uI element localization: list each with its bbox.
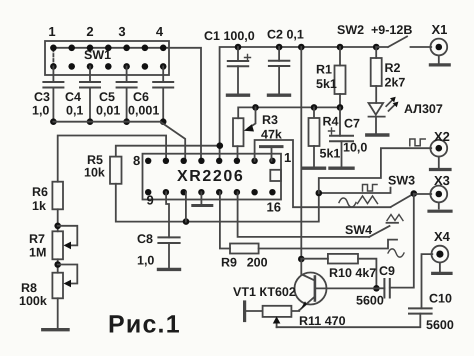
triangle symbol on SW3 lower line (358, 196, 378, 204)
SW1 top contact dot col6 (142, 45, 149, 52)
SW4 triangle symbol (387, 215, 403, 221)
capacitor C4 (89, 66, 91, 82)
SW1 bottom contact dot col1 (50, 63, 57, 70)
wire U1 pin 13 to R9 (220, 192, 230, 248)
wire SW3 common down to C9 (390, 194, 414, 288)
wire +V rail (300, 47, 302, 259)
R8 wiper arrowhead (64, 280, 72, 288)
wire bias line R3/R4/C7/R1 (238, 107, 340, 118)
svg-text:5600: 5600 (356, 294, 384, 308)
svg-text:C10: C10 (429, 292, 452, 306)
node C6 bottom bus junction (160, 118, 167, 125)
svg-text:1M: 1M (29, 246, 46, 260)
node +V rail top junction (298, 44, 305, 51)
svg-text:0,1: 0,1 (66, 104, 83, 118)
SW1 bottom contact dot col2 (68, 63, 75, 70)
svg-text:R4: R4 (323, 115, 339, 129)
ground X2 (431, 168, 451, 171)
svg-text:C5: C5 (99, 90, 115, 104)
svg-text:1: 1 (284, 150, 291, 165)
svg-text:VT1 КТ602: VT1 КТ602 (233, 285, 296, 299)
svg-text:R7: R7 (29, 232, 45, 246)
U1 bottom pin 15 dot (251, 189, 257, 195)
wire U1 pin 2 sine route to SW3 lower contact (255, 140, 391, 207)
svg-text:XR2206: XR2206 (177, 168, 244, 185)
ground at U1 pin 12 (200, 192, 202, 204)
svg-text:0,001: 0,001 (128, 104, 159, 118)
ground C8 (159, 268, 180, 271)
LED emission arrows (386, 100, 392, 106)
VT1 emitter arrowhead (301, 301, 307, 309)
switch SW3 blade (391, 194, 414, 207)
U1 top pin 2 dot (251, 158, 257, 164)
switch SW4 blade (369, 226, 389, 237)
svg-text:1,0: 1,0 (32, 104, 49, 118)
svg-text:R6: R6 (32, 185, 48, 199)
connector X2 (430, 140, 447, 157)
wire U1 pin 11 drop (185, 192, 187, 221)
wire R6 to R7 (57, 209, 59, 231)
SW1 bottom contact dot col5 (123, 63, 130, 70)
C1 polarity plus (245, 55, 251, 61)
switch SW1 box (45, 41, 169, 75)
SW1 top contact dot col7 (160, 45, 167, 52)
node SW2 input junction (373, 44, 380, 51)
capacitor C2 (278, 47, 280, 61)
svg-text:1: 1 (48, 24, 55, 39)
ground X4 (433, 272, 451, 275)
U1 top pin 8 dot (145, 158, 151, 164)
svg-text:SW4: SW4 (345, 223, 372, 237)
ground LED (367, 133, 388, 136)
op-amp U1 XR2206 body (143, 154, 282, 200)
SW1 bottom contact dot col3 (87, 63, 94, 70)
node R3 wiper junction (252, 104, 259, 111)
U1 bottom pin 13 dot (216, 189, 222, 195)
node sync branch junction (316, 190, 323, 197)
SW1 bottom contact dot col7 (160, 63, 167, 70)
SW1 top contact dot col5 (123, 45, 130, 52)
node R5 to pin4 rail junction (217, 142, 224, 149)
capacitor C3 (52, 66, 54, 82)
U1 top pin 1 dot (269, 158, 275, 164)
node R6-R7 junction (54, 223, 61, 230)
U1 inner connector box (270, 170, 281, 181)
ground X1 (430, 63, 449, 66)
svg-text:2: 2 (86, 24, 93, 39)
potentiometer R11 (263, 306, 292, 317)
resistor R1 (339, 47, 341, 66)
node R7-R8 junction (54, 261, 61, 268)
resistor R9 (230, 244, 259, 254)
svg-text:R2: R2 (385, 61, 401, 75)
svg-text:X1: X1 (432, 22, 448, 37)
wire R5 bottom to sync line (116, 184, 319, 222)
svg-text:SW2: SW2 (337, 23, 364, 37)
wire R8 to ground (57, 298, 59, 328)
svg-text:8: 8 (133, 153, 140, 168)
node C5 bottom bus junction (123, 118, 130, 125)
connector X3 (430, 186, 447, 203)
svg-text:C8: C8 (137, 232, 153, 246)
U1 bottom pin 12 dot (198, 189, 204, 195)
svg-text:R9 200: R9 200 (221, 256, 268, 270)
svg-text:10,0: 10,0 (343, 141, 367, 155)
U1 top pin 4 dot (216, 158, 222, 164)
U1 top pin 5 dot (198, 158, 204, 164)
R3 wiper arrowhead (244, 124, 254, 131)
VT1 base lead (315, 287, 377, 289)
svg-text:АЛ307: АЛ307 (404, 102, 443, 116)
node C2 top junction (276, 44, 283, 51)
switch SW2 (376, 37, 431, 48)
svg-text:C6: C6 (133, 90, 149, 104)
resistor R10 (301, 258, 328, 260)
svg-text:0,01: 0,01 (96, 104, 120, 118)
wire emitter to R11 (291, 309, 299, 312)
wire SW3 common to X3 (414, 193, 431, 195)
SW1 bottom contact dot col6 (142, 63, 149, 70)
SW4 sine symbol (388, 249, 404, 257)
resistor R2 (375, 47, 377, 58)
potentiometer R3 (233, 118, 244, 146)
svg-text:+9-12В: +9-12В (371, 23, 412, 37)
square wave symbol at X2 (410, 139, 425, 146)
svg-text:2k7: 2k7 (385, 76, 406, 90)
wire pin 7 line to R6 chain (58, 136, 166, 182)
R7 wiper arrowhead (64, 242, 72, 250)
R11 wiper arrow from C10 line (276, 320, 278, 328)
U1 bottom pin 9 dot (145, 189, 151, 195)
VT1 collector lead (301, 259, 315, 281)
capacitor C9 (376, 287, 384, 289)
node collector/R10 rail junction (298, 256, 305, 263)
node C1 top junction (235, 44, 242, 51)
svg-text:Рис.1: Рис.1 (108, 311, 181, 339)
svg-text:1,0: 1,0 (137, 254, 154, 268)
svg-text:X4: X4 (434, 229, 451, 244)
SW1 top contact dot col4 (105, 45, 112, 52)
U1 bottom pin 16 dot (269, 189, 275, 195)
svg-text:100k: 100k (19, 294, 47, 308)
svg-text:R8: R8 (21, 281, 37, 295)
svg-text:5600: 5600 (426, 318, 454, 332)
SW1 top contact dot col3 (87, 45, 94, 52)
square wave symbol on SW3 upper line (363, 185, 378, 192)
ground C7 (330, 166, 353, 169)
svg-text:5k1: 5k1 (320, 147, 341, 161)
U1 top pin 3 dot (234, 158, 240, 164)
LED HL1 AL307 (375, 86, 377, 103)
wire C10 to R11 wiper (277, 314, 421, 328)
potentiometer R7 (52, 231, 63, 259)
ground C2 (269, 93, 290, 96)
capacitor C6 (162, 66, 164, 82)
sine symbol on SW3 lower line (339, 198, 356, 207)
resistor R4 (313, 107, 315, 116)
svg-text:1k: 1k (32, 199, 46, 213)
node R4 top junction (311, 104, 318, 111)
resistor R5 (110, 157, 122, 184)
svg-text:4: 4 (156, 24, 164, 39)
wire R9 to SW4 lower contact (259, 240, 397, 249)
ground R11 (243, 302, 246, 321)
SW1 top contact dot col2 (68, 45, 75, 52)
VT1 emitter lead (299, 297, 315, 311)
svg-text:R10 4k7: R10 4k7 (329, 266, 376, 280)
transistor VT1 KT602 (295, 273, 327, 305)
ground C1 (228, 93, 249, 96)
wire sync line to X2 (319, 148, 431, 193)
wire R7 to R8 (57, 259, 59, 272)
connector X1 (430, 39, 447, 56)
node base/C9 junction (373, 285, 380, 292)
SW1 wiper dashed link position 1 (52, 49, 54, 66)
U1 top pin 6 dot (181, 158, 187, 164)
U1 bottom pin 10 dot (163, 189, 169, 195)
capacitor C5 (126, 66, 128, 82)
svg-text:C1 100,0: C1 100,0 (204, 29, 255, 43)
resistor R6 (52, 182, 63, 210)
node C3 bottom bus junction (50, 118, 57, 125)
node R1 top junction (337, 44, 344, 51)
ground X3 (429, 210, 451, 213)
svg-text:C3: C3 (34, 90, 50, 104)
U1 top pin 7 dot (163, 158, 169, 164)
ground at U1 pin 1 (271, 148, 273, 161)
wire X4 to C10 (422, 254, 433, 308)
svg-text:10k: 10k (84, 166, 105, 180)
svg-text:SW3: SW3 (388, 174, 415, 188)
SW1 top contact dot col1 (50, 45, 57, 52)
node pin 11 sync junction (183, 218, 190, 225)
svg-text:R11 470: R11 470 (299, 314, 346, 328)
wire SW1 common rail to pin 5 of U1 (53, 48, 201, 161)
R8 wiper loop (58, 265, 78, 284)
C7 polarity plus (329, 128, 335, 134)
capacitor C7 electrolytic (339, 107, 341, 135)
svg-text:C7: C7 (344, 117, 360, 131)
ground R8 (43, 328, 68, 331)
capacitor C10 (409, 307, 432, 309)
wire top power bus with drop to pin 4 (220, 47, 377, 161)
svg-text:X3: X3 (434, 173, 450, 188)
wire R3 bottom to pin 3 (237, 146, 239, 161)
svg-text:5k1: 5k1 (316, 77, 337, 91)
U1 bottom pin 11 dot (181, 189, 187, 195)
capacitor C1 electrolytic (237, 47, 239, 61)
wire U1 pin 14 to SW4 pivot (238, 192, 370, 237)
svg-text:X2: X2 (434, 129, 450, 144)
connector X4 (432, 246, 449, 263)
node C4 bottom bus junction (87, 118, 94, 125)
capacitor C8 (166, 192, 169, 237)
svg-text:C4: C4 (65, 90, 81, 104)
wire R5 top to +V rail drop (116, 146, 220, 157)
node SW3 common junction (411, 190, 418, 197)
R7 wiper loop (58, 226, 78, 246)
wire R10 to base node (358, 259, 376, 289)
R3 wiper wire (249, 107, 256, 128)
wire timing-cap bus to pin 6 of U1 (53, 122, 185, 161)
U1 bottom pin 14 dot (234, 189, 240, 195)
svg-text:R1: R1 (316, 63, 332, 77)
SW1 bottom contact dot col4 (105, 63, 112, 70)
svg-text:C2 0,1: C2 0,1 (267, 28, 304, 42)
svg-text:R3: R3 (262, 113, 278, 127)
ground R4 (304, 166, 325, 169)
wire R11 to ground bar (246, 310, 263, 312)
SW4 upper contact (387, 222, 399, 224)
svg-text:3: 3 (118, 24, 125, 39)
wire sync line to SW3 upper contact (319, 188, 391, 193)
node R1/C7 junction (337, 104, 344, 111)
svg-text:16: 16 (267, 200, 281, 215)
svg-text:C9: C9 (379, 264, 395, 278)
potentiometer R8 (52, 273, 63, 299)
